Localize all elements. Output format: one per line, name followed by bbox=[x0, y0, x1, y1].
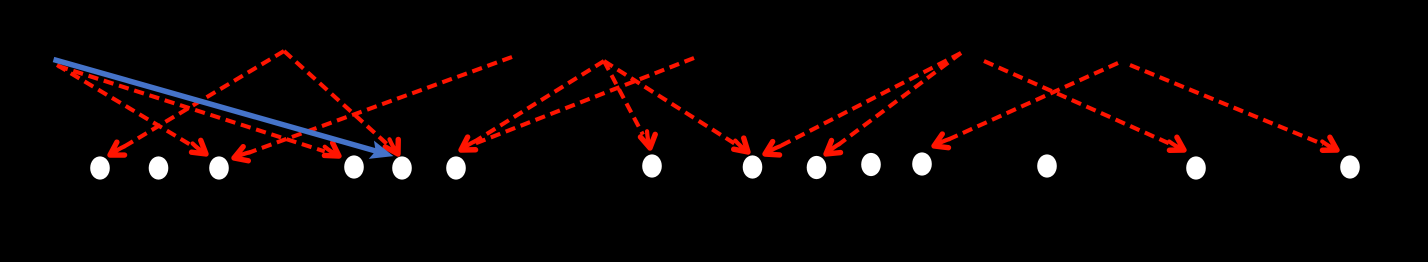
arrow D to node8 bbox=[604, 61, 753, 158]
node 1 bbox=[90, 156, 110, 179]
node 4 bbox=[344, 155, 364, 178]
arrow G to node13 bbox=[984, 61, 1188, 156]
node 6 bbox=[446, 156, 466, 179]
arrow apex-512 to node3 bbox=[231, 57, 512, 165]
node 7 bbox=[642, 154, 662, 177]
node 5 bbox=[392, 156, 412, 179]
arrow A to node3 bbox=[57, 65, 211, 160]
arrow B to node5 bbox=[284, 51, 404, 158]
node 13 bbox=[1186, 156, 1206, 179]
node 3 bbox=[209, 156, 229, 179]
node 2 bbox=[149, 156, 169, 179]
arrow B to node1 bbox=[106, 51, 284, 161]
arrow H to node11 bbox=[931, 63, 1118, 153]
arrow D to node6 bbox=[457, 61, 604, 156]
arrow A to node4 bbox=[58, 66, 343, 162]
arrow F to node8 bbox=[762, 53, 961, 161]
arrow F to node9 bbox=[822, 53, 961, 160]
arrow D to node7 bbox=[604, 61, 657, 149]
blue arrow A to node5 bbox=[54, 60, 397, 166]
node 8 bbox=[743, 155, 763, 178]
node 10 bbox=[861, 153, 881, 176]
arrow H2 to node14 bbox=[1130, 65, 1341, 156]
node 9 bbox=[807, 156, 827, 179]
node 11 bbox=[912, 152, 932, 175]
node 14 bbox=[1340, 155, 1360, 178]
arrow E to node6 bbox=[473, 58, 694, 145]
node 12 bbox=[1037, 154, 1057, 177]
